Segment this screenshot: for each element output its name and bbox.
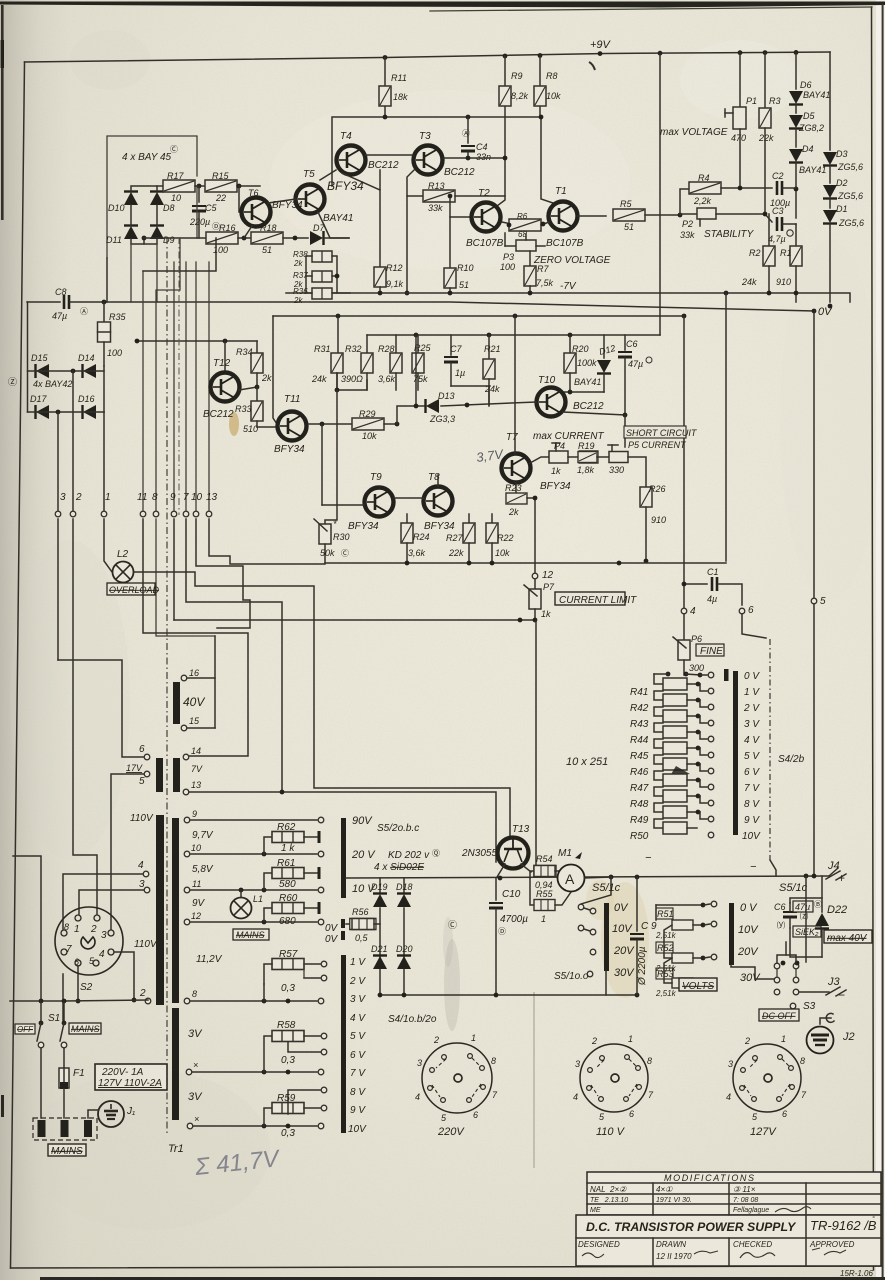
svg-text:18k: 18k [393, 92, 408, 102]
svg-text:BFY34: BFY34 [424, 521, 455, 532]
wire T1 collector [541, 117, 556, 204]
wire R19-P5 [597, 456, 609, 458]
resistor R37 [293, 271, 332, 289]
svg-text:910: 910 [651, 515, 666, 525]
transistor T13 [461, 824, 531, 877]
diode D10 [108, 192, 138, 214]
svg-text:7,5k: 7,5k [536, 278, 554, 288]
wire box inner drops [130, 244, 132, 302]
resistor R36 [293, 287, 332, 305]
svg-text:③ 11×: ③ 11× [733, 1185, 756, 1194]
svg-text:R13: R13 [428, 181, 445, 191]
wire x156 drop [156, 519, 215, 636]
svg-text:C3: C3 [772, 206, 784, 216]
winding 40V terminal 16 [181, 668, 199, 681]
svg-text:−: − [750, 861, 757, 873]
wire R54/R55 to meter [555, 871, 560, 878]
resistor R17 [163, 171, 195, 203]
svg-text:S5/2o.b.c: S5/2o.b.c [377, 823, 419, 834]
secondary tap 12 [184, 911, 201, 925]
svg-text:15: 15 [189, 716, 200, 726]
svg-text:10 x 251: 10 x 251 [566, 756, 608, 768]
diode D12 [574, 335, 616, 392]
wire bridge2 right vert [103, 366, 105, 412]
wire tapx row [192, 1071, 317, 1073]
svg-text:110V: 110V [130, 813, 154, 824]
svg-text:3: 3 [139, 879, 145, 890]
svg-text:R55: R55 [536, 889, 554, 899]
svg-text:6: 6 [139, 744, 145, 755]
wire D3-D2 [829, 166, 831, 183]
resistor R41 [630, 674, 714, 698]
wire R4 row [680, 189, 694, 215]
resistor R52 [655, 925, 717, 973]
svg-text:8: 8 [647, 1056, 652, 1066]
svg-text:20V: 20V [613, 945, 635, 957]
wire S2 connections [58, 660, 144, 757]
svg-text:P2: P2 [682, 219, 693, 229]
svg-text:MAINS: MAINS [236, 930, 265, 940]
secondary tap 8b [184, 989, 197, 1004]
potentiometer P3 [500, 233, 545, 272]
svg-text:R33: R33 [235, 404, 252, 414]
diode D5 [789, 111, 824, 133]
svg-text:6: 6 [473, 1110, 478, 1120]
svg-text:330: 330 [609, 465, 624, 475]
resistor R5 [613, 199, 645, 232]
svg-text:C10: C10 [502, 889, 521, 900]
svg-text:max VOLTAGE: max VOLTAGE [660, 127, 728, 138]
label SHORT CIRCUIT [624, 426, 698, 438]
svg-text:R10: R10 [457, 263, 474, 273]
wire bridge top row [131, 186, 197, 192]
core dash line [166, 237, 168, 1135]
svg-text:6: 6 [74, 957, 79, 967]
secondary tap x [186, 1060, 198, 1075]
transistor T8 [424, 472, 456, 532]
svg-text:ZG5,6: ZG5,6 [837, 191, 863, 201]
svg-text:7 V: 7 V [350, 1068, 366, 1079]
wire staircase 2 [186, 519, 496, 862]
transistor T1 [546, 186, 584, 249]
lamp L2 [113, 549, 134, 583]
terminal 13 [206, 511, 212, 517]
wire x416 drop [415, 335, 417, 406]
diode D15 [31, 353, 49, 378]
wire tap10 row [190, 853, 317, 855]
svg-text:2: 2 [591, 1036, 597, 1046]
modifications row2 [590, 1197, 758, 1204]
svg-text:2k: 2k [293, 296, 303, 305]
svg-text:2 V: 2 V [743, 703, 760, 714]
resistor R3 [758, 96, 781, 143]
svg-text:STABILITY: STABILITY [704, 229, 755, 240]
svg-text:R32: R32 [345, 344, 362, 354]
svg-text:51: 51 [459, 280, 469, 290]
svg-text:R31: R31 [314, 344, 331, 354]
resistor R62 [264, 822, 319, 854]
svg-text:R6: R6 [517, 212, 528, 221]
wire T9-T8 link [394, 497, 424, 499]
svg-text:4: 4 [99, 949, 105, 960]
svg-text:P7: P7 [543, 582, 555, 592]
diode D22 [815, 876, 847, 957]
svg-text:R19: R19 [578, 441, 595, 451]
scan edge left [1, 5, 4, 220]
wire tap9 row [190, 819, 317, 821]
row designed [578, 1240, 620, 1258]
label CURRENT LIMIT [555, 592, 637, 606]
svg-text:220V: 220V [437, 1126, 465, 1138]
svg-text:9,1k: 9,1k [386, 279, 404, 289]
svg-text:12: 12 [191, 911, 201, 921]
svg-text:1 k: 1 k [281, 843, 295, 854]
svg-text:DRAWN: DRAWN [656, 1240, 686, 1249]
svg-text:MAINS: MAINS [51, 1146, 83, 1157]
wire terminal4 to P6 [683, 614, 685, 640]
primary terminal 5 [139, 771, 150, 787]
label VOLTS [679, 978, 717, 992]
resistor R18 [251, 223, 283, 255]
svg-text:D6: D6 [800, 80, 812, 90]
resistor R9 [499, 56, 529, 158]
diode D1 [823, 204, 864, 228]
modifications row3 [590, 1207, 811, 1214]
svg-text:BFY34: BFY34 [348, 521, 379, 532]
svg-text:−: − [645, 852, 652, 864]
svg-text:R16: R16 [219, 223, 236, 233]
svg-text:9: 9 [192, 809, 197, 819]
svg-text:R24: R24 [413, 532, 430, 542]
wire C6 down to P5 [624, 415, 626, 447]
svg-text:D11: D11 [106, 235, 122, 245]
wire x684 long vertical [683, 316, 685, 611]
svg-text:0,3: 0,3 [281, 983, 295, 994]
capacitor C10 [489, 878, 528, 995]
svg-text:C7: C7 [450, 344, 462, 354]
svg-text:C5: C5 [205, 203, 217, 213]
resistor R10 [444, 217, 474, 293]
secondary 3V bars [172, 1008, 179, 1120]
jack J2 [807, 1013, 855, 1053]
plug pin 2 [61, 1120, 69, 1137]
svg-text:4: 4 [415, 1092, 420, 1102]
svg-text:ZG5,6: ZG5,6 [838, 218, 864, 228]
wire R4 to C2 [721, 187, 772, 189]
svg-text:3V: 3V [188, 1028, 203, 1040]
label DC OFF [759, 1009, 799, 1021]
transistor T5 [296, 169, 325, 214]
S5/1c right labels [737, 902, 761, 984]
transistor T10 [537, 375, 605, 417]
svg-text:33k: 33k [428, 203, 443, 213]
diode D20 [396, 944, 413, 969]
wire S2 pin4 to mains row [114, 952, 134, 1000]
svg-text:9 V: 9 V [350, 1105, 366, 1116]
row drawn [656, 1240, 718, 1261]
svg-text:R49: R49 [630, 815, 649, 826]
svg-text:6 V: 6 V [350, 1050, 366, 1061]
svg-text:220µ: 220µ [189, 217, 210, 227]
svg-text:2N3055: 2N3055 [461, 848, 497, 859]
switch S3 contacts [774, 961, 799, 995]
wire T9 base left [322, 504, 364, 506]
wire staircase 4 [196, 519, 250, 628]
wire S2 bottom to mains [10, 1000, 148, 1001]
svg-text:7: 7 [66, 944, 72, 955]
resistor R57 [264, 949, 327, 1001]
wire y620 [174, 619, 535, 621]
wire 40V loop [187, 677, 215, 679]
scan edge top [0, 2, 885, 8]
secondary terminal 14 [183, 746, 201, 760]
wire D13 to T10 base [441, 402, 536, 406]
svg-text:T12: T12 [213, 358, 231, 369]
svg-text:MAINS: MAINS [71, 1024, 100, 1034]
resistor R43 [630, 707, 714, 730]
svg-text:47µ: 47µ [628, 359, 643, 369]
-7V rail [286, 293, 850, 302]
svg-text:+: + [838, 871, 845, 885]
wire T2 base [450, 196, 470, 217]
label MAINS L1 [233, 929, 269, 940]
svg-text:470: 470 [731, 133, 746, 143]
wire top feedback box [332, 117, 541, 186]
svg-text:680: 680 [279, 916, 296, 927]
svg-text:15R-1.06: 15R-1.06 [840, 1269, 873, 1278]
svg-text:S5/1c: S5/1c [592, 882, 621, 894]
svg-text:7: 7 [183, 492, 189, 503]
svg-text:TE 2.13.10: TE 2.13.10 [590, 1197, 628, 1204]
svg-text:C6: C6 [626, 339, 638, 349]
ladder row 0V [686, 669, 729, 681]
wire R5 to P2 node [645, 214, 680, 216]
diode D7 [310, 223, 325, 245]
svg-text:FINE: FINE [700, 646, 723, 657]
svg-text:8: 8 [152, 492, 158, 503]
svg-text:S4/1o.b/2o: S4/1o.b/2o [388, 1014, 437, 1025]
svg-text:BAY41: BAY41 [574, 377, 601, 387]
svg-text:R51: R51 [657, 909, 674, 919]
svg-text:−: − [838, 988, 845, 1002]
svg-text:9: 9 [170, 492, 176, 503]
resistor R60 [264, 893, 319, 927]
capacitor C6 [618, 335, 652, 415]
svg-text:D4: D4 [802, 144, 814, 154]
wire terminal drops left [57, 412, 59, 510]
svg-text:S5/1o.o: S5/1o.o [554, 971, 589, 982]
svg-text:R21: R21 [484, 344, 501, 354]
svg-text:max 40V: max 40V [827, 933, 868, 944]
svg-text:BFY34: BFY34 [540, 481, 571, 492]
S4/1 bar [341, 955, 346, 1133]
winding 7V bar [173, 758, 180, 792]
svg-text:300: 300 [689, 663, 704, 673]
svg-text:3: 3 [728, 1059, 733, 1069]
wire R13 to T2 node [455, 195, 505, 197]
wire D7 right [324, 237, 349, 239]
label OFF [15, 1024, 35, 1034]
svg-text:C4: C4 [476, 142, 488, 152]
svg-text:1µ: 1µ [455, 368, 465, 378]
svg-text:R28: R28 [378, 344, 395, 354]
svg-text:L1: L1 [253, 894, 263, 904]
diode D16 [78, 394, 96, 419]
svg-text:0V: 0V [325, 934, 339, 945]
wire bridge2 left vert [27, 302, 29, 412]
resistor R20 [564, 335, 597, 392]
svg-text:1 V: 1 V [350, 957, 366, 968]
wire R23 right [527, 498, 535, 573]
S4/1 column labels 1V-10V [348, 957, 367, 1135]
wire R3 bottom [764, 128, 766, 213]
svg-text:BAY41: BAY41 [323, 213, 353, 224]
label MAINS plug [48, 1144, 86, 1157]
svg-text:DESIGNED: DESIGNED [578, 1240, 620, 1249]
resistor R2 [741, 214, 775, 293]
wire bridge2 bottom row [28, 411, 105, 413]
svg-text:2k: 2k [261, 373, 272, 383]
svg-text:50k: 50k [320, 548, 335, 558]
svg-text:9 V: 9 V [744, 815, 760, 826]
wire R33 to T11 [257, 426, 275, 428]
potentiometer P7 [524, 579, 555, 620]
wire staircase lamp to T13 [134, 572, 510, 837]
svg-text:47µ: 47µ [52, 311, 67, 321]
wire bottom row left [197, 237, 205, 239]
capacitor C9 [630, 877, 657, 995]
secondary tap y [187, 1114, 199, 1129]
svg-text:T5: T5 [303, 169, 315, 180]
svg-text:R11: R11 [391, 73, 407, 83]
wire T6 base drop [239, 186, 242, 212]
transistor T2 [466, 188, 504, 249]
svg-text:33n: 33n [476, 152, 491, 162]
svg-text:R61: R61 [277, 858, 295, 869]
bundle verticals from top [143, 238, 209, 510]
svg-text:R62: R62 [277, 822, 296, 833]
svg-text:12 II 1970: 12 II 1970 [656, 1252, 692, 1261]
resistor R4 [689, 173, 721, 206]
wire y563 bus [325, 562, 726, 564]
svg-text:0,5: 0,5 [355, 933, 369, 943]
secondary tap 9 [184, 809, 197, 823]
resistor R33 [235, 387, 263, 434]
resistor R8 [534, 56, 561, 118]
svg-text:24k: 24k [311, 374, 327, 384]
svg-text:R34: R34 [236, 347, 253, 357]
wire mid bar bottom [605, 971, 607, 995]
terminal 4 [681, 606, 696, 617]
svg-text:Ⓩ: Ⓩ [8, 377, 17, 387]
terminal labels 3 2 1 [60, 492, 111, 503]
svg-text:BC107B: BC107B [546, 238, 584, 249]
svg-text:0,3: 0,3 [281, 1128, 295, 1139]
resistor R29 [352, 409, 384, 441]
svg-text:R45: R45 [630, 751, 649, 762]
label max 40V [824, 930, 872, 944]
svg-text:Ⓓ: Ⓓ [498, 927, 506, 936]
svg-text:D13: D13 [438, 391, 455, 401]
paper crease [533, 992, 535, 1168]
svg-text:6: 6 [748, 605, 754, 616]
svg-text:D10: D10 [108, 203, 125, 213]
svg-text:3: 3 [101, 930, 107, 941]
svg-text:22: 22 [215, 193, 226, 203]
svg-text:13: 13 [191, 780, 201, 790]
wire R6-T1 [541, 222, 549, 225]
resistor R12 [374, 170, 404, 293]
svg-text:R9: R9 [511, 71, 523, 81]
svg-text:R54: R54 [536, 854, 553, 864]
svg-text:7: 08 08: 7: 08 08 [733, 1197, 758, 1204]
secondary tap 11 [184, 879, 201, 893]
wire terminal5 down [813, 604, 815, 875]
wire R21 bottom join [488, 386, 490, 405]
svg-text:R57: R57 [279, 949, 298, 960]
svg-text:24k: 24k [741, 277, 757, 287]
terminal 1 [101, 511, 107, 517]
svg-text:5: 5 [139, 776, 145, 787]
svg-text:R4: R4 [698, 173, 710, 183]
diode D21 [371, 944, 388, 969]
resistor R58 [264, 1020, 327, 1072]
svg-text:3: 3 [575, 1059, 580, 1069]
svg-text:OVERLOAD: OVERLOAD [109, 585, 160, 595]
svg-text:5,8V: 5,8V [192, 864, 214, 875]
svg-text:Ⓒ: Ⓒ [170, 145, 178, 154]
wire T6-T5 [268, 199, 296, 203]
+9V rail [25, 52, 831, 62]
svg-text:KD 202 v: KD 202 v [388, 850, 430, 861]
svg-text:17V: 17V [126, 763, 143, 773]
plug J1 [98, 1101, 135, 1127]
resistor R42 [630, 691, 714, 714]
resistor R49 [630, 803, 714, 826]
svg-text:×: × [194, 1114, 199, 1124]
svg-text:T2: T2 [478, 188, 490, 199]
svg-text:R52: R52 [657, 943, 674, 953]
wire P7 to output bus [535, 620, 537, 877]
mains plug dashed box [33, 1118, 97, 1140]
svg-text:D3: D3 [836, 149, 848, 159]
svg-text:13: 13 [206, 492, 218, 503]
wire D4 to C2 node [795, 163, 797, 218]
svg-text:R47: R47 [630, 783, 649, 794]
labels 0V 0V [325, 923, 339, 945]
svg-text:S3: S3 [803, 1001, 816, 1012]
svg-text:BC212: BC212 [368, 160, 399, 171]
svg-text:P5 CURRENT: P5 CURRENT [628, 440, 687, 450]
transistor T3 [414, 131, 476, 178]
wire T7 base row P4 [530, 457, 549, 463]
svg-text:ZG5,6: ZG5,6 [837, 162, 863, 172]
svg-text:R60: R60 [279, 893, 298, 904]
modifications row1 [590, 1185, 756, 1194]
wire P2 row [680, 213, 697, 215]
S4/2b bar [733, 671, 738, 835]
svg-text:C2: C2 [772, 171, 784, 181]
svg-text:ME: ME [590, 1207, 601, 1214]
svg-text:47µ: 47µ [795, 902, 810, 912]
svg-text:J2: J2 [842, 1031, 855, 1043]
wire R16-R18 [238, 237, 251, 239]
wire bridge bottom row [131, 239, 157, 244]
diode D4 [789, 144, 826, 175]
svg-text:R5: R5 [620, 199, 632, 209]
svg-text:51: 51 [624, 222, 634, 232]
svg-text:10k: 10k [495, 548, 510, 558]
